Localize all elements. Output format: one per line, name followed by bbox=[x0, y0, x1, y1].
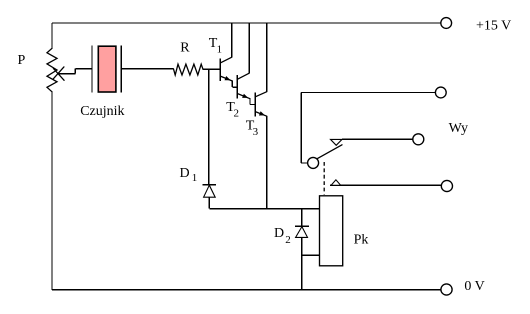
svg-text:3: 3 bbox=[253, 126, 259, 138]
svg-text:D: D bbox=[180, 166, 190, 181]
svg-text:1: 1 bbox=[192, 172, 198, 184]
svg-text:Czujnik: Czujnik bbox=[80, 104, 124, 119]
svg-text:2: 2 bbox=[234, 108, 240, 120]
svg-text:D: D bbox=[274, 226, 284, 241]
svg-text:Wy: Wy bbox=[449, 121, 468, 136]
svg-text:0 V: 0 V bbox=[464, 279, 484, 294]
svg-text:Pk: Pk bbox=[354, 232, 369, 247]
svg-text:+15 V: +15 V bbox=[476, 18, 511, 33]
svg-text:P: P bbox=[18, 53, 26, 68]
svg-text:2: 2 bbox=[285, 234, 291, 246]
svg-text:1: 1 bbox=[217, 43, 223, 55]
svg-text:R: R bbox=[180, 41, 190, 56]
